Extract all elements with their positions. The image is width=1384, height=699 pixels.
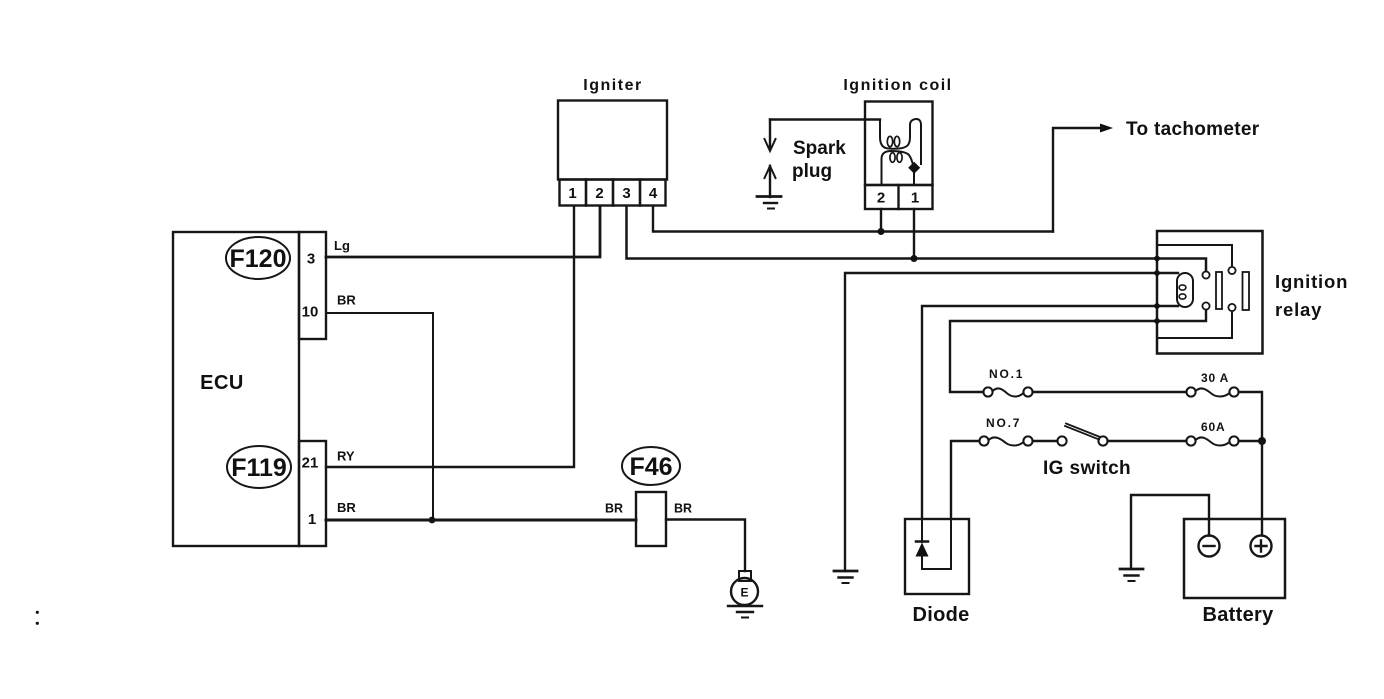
pin 21 [302,455,319,472]
junction dot coil pin 1 [911,255,918,262]
wire battery plus vertical [1261,441,1263,535]
connector label F120 [226,237,290,279]
svg-text:Spark: Spark [793,138,846,159]
svg-text:NO.1: NO.1 [989,367,1024,381]
battery box [1184,519,1285,598]
wire label RY [337,449,355,464]
spark plug ground [757,197,781,209]
svg-text:3: 3 [307,251,315,268]
label Spark plug [792,138,846,182]
svg-text:2: 2 [595,185,603,202]
svg-text:4: 4 [649,185,658,202]
svg-text:3: 3 [622,185,630,202]
coil pin 2 [877,190,885,207]
svg-text:BR: BR [337,500,356,515]
wire relay lower-left contact to fuse NO.1 row [950,310,1206,392]
wire to tachometer with arrow [1053,124,1113,232]
spark plug gap arrows [765,120,776,198]
svg-text:NO.7: NO.7 [986,416,1021,430]
wire coil pin 1 stub [913,209,915,259]
igniter pin 3 [622,185,630,202]
label Diode [912,604,969,626]
svg-text:BR: BR [337,293,356,308]
wire fuse 30A to battery junction [1239,392,1262,437]
relay edge junction dots [1154,256,1160,324]
svg-text:BR: BR [605,502,623,516]
junction dot BR bus [429,517,436,524]
svg-text:2: 2 [877,190,885,207]
junction dot battery feed [1258,437,1266,445]
wire F46 to body ground [666,520,745,572]
wire relay coil top to ground [845,273,1178,571]
svg-text:Diode: Diode [912,604,969,626]
fuse NO.1 [983,367,1032,397]
connector F46 label [622,447,680,485]
igniter pin 2 [595,185,603,202]
wire battery minus to ground [1131,495,1209,569]
wire IG switch to fuse 60A [1108,440,1187,442]
svg-text:Battery: Battery [1202,604,1274,626]
ignition coil box [865,102,933,210]
wire label BR (pin 1) [337,500,356,515]
ECU connector block lower (pins 21,1) [299,441,326,546]
svg-text:Ignition coil: Ignition coil [843,77,952,94]
igniter pin 1 [568,185,576,202]
svg-text:30 A: 30 A [1201,371,1229,385]
label IG switch [1043,458,1131,479]
igniter pin 4 [649,185,658,202]
svg-text:IG switch: IG switch [1043,458,1131,479]
svg-text:21: 21 [302,455,319,472]
wire diode to fuse NO.7 [951,441,979,519]
svg-text:1: 1 [308,511,316,528]
svg-text:plug: plug [792,161,832,182]
wire label BR (right of F46) [674,502,692,516]
svg-text:relay: relay [1275,299,1322,320]
svg-text:RY: RY [337,449,355,464]
label Igniter [583,77,642,94]
wire label BR (pin 10) [337,293,356,308]
coil pin 1 [911,190,919,207]
svg-text:E: E [740,586,748,600]
svg-text:Lg: Lg [334,238,350,253]
relay coil [1177,273,1193,307]
pin 3 [307,251,315,268]
diode D1 [916,542,929,557]
label Battery [1202,604,1274,626]
svg-text:60A: 60A [1201,420,1225,434]
connector F46 box [636,492,666,546]
wire ECU pin 1 to connector F46 [326,519,636,522]
pin 10 [302,304,319,321]
wire fuse 60A right to battery plus vertical [1239,440,1262,442]
label To tachometer [1126,119,1260,140]
svg-text:Igniter: Igniter [583,77,642,94]
wire relay coil bottom to diode [922,306,1178,519]
ground (battery minus) [1120,569,1143,581]
relay internal wire top [1157,245,1232,267]
fuse 60A [1186,420,1238,446]
wire ignition coil secondary to spark plug [770,118,880,120]
fuse NO.7 [979,416,1032,446]
svg-text:1: 1 [568,185,576,202]
scan artifact bottom-left [36,611,39,625]
relay internal wire bottom [1157,312,1232,339]
svg-text:F120: F120 [230,245,287,273]
ignition coil windings [880,119,921,185]
body ground E [728,571,762,618]
ECU box [173,232,299,546]
relay contact circles and blades [1202,267,1249,311]
IG switch [1057,424,1107,446]
junction dot coil pin 2 [878,228,885,235]
wire ECU pin 10 down to BR bus [326,313,433,519]
svg-text:BR: BR [674,502,692,516]
fuse 30A [1186,371,1238,397]
wire label Lg [334,238,350,253]
wire ECU pin 21 to igniter pin 1 [326,206,574,467]
wire ECU pin 3 to igniter pin 2 [326,206,600,257]
label Ignition coil [843,77,952,94]
wire diode internal U [922,519,951,569]
wire label BR (left of F46) [605,502,623,516]
svg-text:F119: F119 [231,454,287,482]
svg-text:1: 1 [911,190,919,207]
wire igniter pin 3 to ignition relay upper-left contact [627,206,1207,271]
igniter box [558,101,667,206]
wire coil pin 2 stub [880,209,882,232]
ignition relay box [1157,231,1263,354]
pin 1 [308,511,316,528]
svg-text:F46: F46 [629,453,672,481]
ground (relay coil) [834,571,857,583]
wire fuse NO.7 to IG switch [1033,440,1058,442]
wire fuse NO.1 to fuse 30A [1033,391,1187,393]
svg-text:ECU: ECU [200,372,244,394]
ECU connector block upper (pins 3,10) [299,232,326,339]
battery minus terminal [1199,536,1220,557]
svg-text:To tachometer: To tachometer [1126,119,1260,140]
connector label F119 [227,446,291,488]
diode box [905,519,969,594]
wire igniter pin 4 to tachometer junction [653,206,1053,232]
svg-text:Ignition: Ignition [1275,271,1348,292]
battery plus terminal [1251,536,1272,557]
svg-text:10: 10 [302,304,319,321]
label Ignition relay [1275,271,1348,320]
